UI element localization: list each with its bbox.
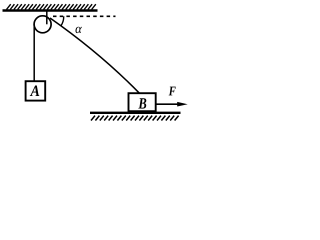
angle label alpha <box>76 27 82 33</box>
pulley support link <box>46 12 48 25</box>
ground hatching <box>91 116 179 121</box>
block A <box>26 81 46 100</box>
pulley (circle) <box>34 16 51 33</box>
ceiling hatching <box>7 4 96 9</box>
label A <box>30 86 40 97</box>
rope from pulley to block B <box>50 18 140 93</box>
dashed horizontal reference line <box>53 15 116 17</box>
ground line <box>90 112 181 114</box>
force arrow F <box>156 102 187 107</box>
ceiling line <box>3 9 98 11</box>
rope from pulley down to block A <box>33 24 35 82</box>
label B <box>138 98 146 108</box>
label F <box>169 87 176 96</box>
block B <box>129 93 156 111</box>
angle arc <box>61 16 64 26</box>
